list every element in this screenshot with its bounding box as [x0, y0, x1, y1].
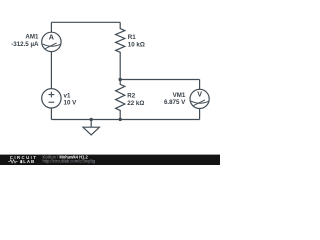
svg-text:http://circuitlab.com/c/3nq6tg: http://circuitlab.com/c/3nq6tg: [43, 158, 96, 163]
svg-text:LAB: LAB: [23, 159, 35, 164]
svg-text:R2: R2: [127, 93, 135, 100]
svg-text:10 kΩ: 10 kΩ: [128, 42, 145, 49]
svg-text:10 V: 10 V: [64, 99, 78, 106]
svg-text:AM1: AM1: [25, 33, 39, 40]
svg-text:VM1: VM1: [173, 92, 186, 99]
svg-text:22 kΩ: 22 kΩ: [127, 100, 144, 107]
svg-text:A: A: [49, 32, 54, 41]
svg-text:-312.5 µA: -312.5 µA: [11, 41, 39, 48]
svg-text:V: V: [197, 89, 202, 98]
svg-text:6.875 V: 6.875 V: [164, 99, 186, 106]
svg-text:R1: R1: [128, 34, 136, 41]
